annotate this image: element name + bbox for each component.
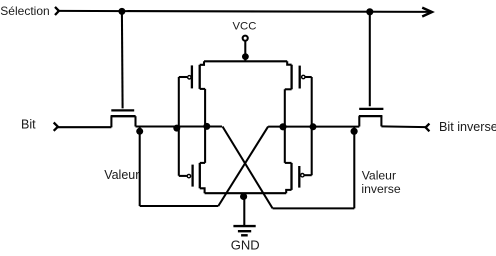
transistor Q1 channel: [111, 115, 136, 117]
Bit inverse line wire: [381, 125, 425, 128]
svg-text:Bit inverse: Bit inverse: [439, 120, 496, 134]
VCC stem: [244, 42, 246, 61]
right NMOS top lead: [285, 162, 292, 164]
transistor Q2 channel: [359, 115, 383, 117]
ground symbol bar2: [238, 230, 251, 232]
left NMOS top lead: [200, 162, 205, 164]
GND rail: [205, 192, 287, 194]
transistor left NMOS channel: [199, 163, 201, 188]
svg-text:Valeur: Valeur: [104, 168, 139, 182]
input chevron Bit: [54, 123, 58, 131]
transistor Q1 left lead: [110, 116, 112, 127]
input chevron Selection: [55, 7, 59, 15]
transistor right NMOS channel: [290, 163, 292, 190]
VCC terminal circle: [243, 36, 248, 41]
junction dot right gate wire: [310, 123, 317, 130]
cross wire bottom left horizontal: [140, 205, 219, 207]
transistor Q1 right lead: [134, 116, 136, 126]
cross wire A to right side (diagonal): [223, 127, 273, 209]
wire word line to left access gate: [121, 11, 124, 108]
transistor right NMOS gate bar: [298, 166, 300, 188]
right PMOS drain lead: [285, 88, 292, 90]
VCC rail: [204, 60, 287, 62]
junction dot word line right: [366, 8, 373, 15]
right inverter drain vertical: [284, 89, 286, 163]
transistor Q2 left lead: [358, 116, 360, 126]
junction dot right bit side: [351, 128, 358, 135]
wire word line to right access gate: [369, 12, 371, 107]
transistor Q1 left access: gate bar: [111, 109, 134, 111]
ground symbol bar3: [241, 234, 248, 236]
transistor Q2 right access: gate bar: [359, 108, 383, 110]
node A wire (left cell node): [136, 125, 223, 127]
left NMOS bottom lead to GND rail: [200, 188, 205, 193]
right inverter gate wire: [311, 77, 313, 175]
junction dot GND: [240, 193, 247, 200]
bubble left NMOS: [187, 174, 190, 177]
svg-text:inverse: inverse: [361, 182, 401, 196]
left inverter drain vertical: [204, 89, 206, 163]
junction dot node A: [203, 123, 210, 130]
svg-text:VCC: VCC: [233, 21, 257, 33]
cross wire right vertical up to Bit-inverse junction: [353, 127, 355, 209]
arrowhead word line right: [422, 8, 432, 17]
node B wire (right cell node): [268, 126, 359, 128]
cross wire B to left side (diagonal): [218, 127, 268, 206]
wire left junction vertical down: [139, 127, 141, 206]
svg-text:Bit: Bit: [21, 118, 36, 132]
input chevron Bit inverse: [426, 124, 430, 132]
transistor left PMOS gate bar: [191, 65, 193, 88]
word line (Selection net): [59, 11, 432, 12]
ground symbol bar1: [233, 225, 255, 227]
right PMOS gate stub: [305, 76, 312, 78]
svg-text:GND: GND: [231, 238, 260, 253]
VCC rail right step: [287, 61, 291, 64]
left inverter gate wire: [178, 77, 180, 176]
svg-text:Sélection: Sélection: [0, 4, 49, 18]
right NMOS gate stub: [304, 174, 311, 176]
GND stem: [243, 196, 245, 225]
bubble right NMOS: [301, 174, 304, 177]
left PMOS drain lead: [200, 88, 205, 90]
right NMOS bottom lead to GND rail: [286, 190, 291, 193]
bubble right PMOS: [302, 75, 305, 78]
transistor Q2 right lead: [380, 116, 382, 126]
left PMOS gate stub: [179, 76, 187, 78]
junction dot word line left: [118, 8, 125, 15]
svg-text:Valeur: Valeur: [362, 169, 396, 183]
transistor left PMOS channel: [199, 65, 201, 89]
cross wire bottom right horizontal: [273, 207, 355, 209]
Bit line wire: [58, 126, 112, 128]
junction dot left bit side: [136, 128, 143, 135]
left PMOS source lead to VCC rail: [200, 61, 204, 65]
transistor right PMOS gate bar: [299, 66, 301, 89]
transistor left NMOS gate bar: [191, 165, 193, 187]
junction dot left gate wire: [173, 125, 180, 132]
transistor right PMOS channel: [290, 65, 292, 90]
junction dot node B: [279, 123, 286, 130]
junction dot VCC: [242, 53, 249, 60]
left NMOS gate stub: [179, 175, 187, 177]
op bubble left PMOS: [188, 76, 191, 79]
